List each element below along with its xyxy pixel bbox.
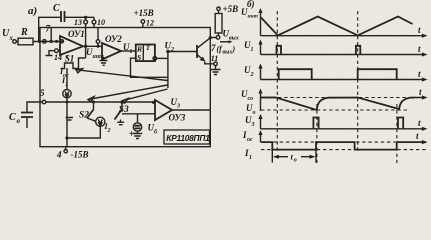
emitter wire to pin 11 — [205, 61, 214, 64]
trace U_2 square wave — [279, 69, 397, 79]
dashed gridline x=277 — [276, 11, 278, 151]
wire OU2 to flip-flop — [121, 50, 136, 52]
wire S1 down — [66, 68, 68, 90]
OU2 ground — [100, 57, 108, 65]
+15V supply pin 12 — [134, 8, 155, 28]
op-amp OU3 — [155, 100, 186, 123]
wire I1 down to bottom — [66, 98, 68, 138]
wire FF S feedback — [131, 58, 168, 77]
wire I2 to bottom rail — [67, 126, 100, 146]
t_o measure — [272, 148, 316, 163]
pin 10 — [92, 17, 105, 27]
node U2 — [166, 50, 169, 53]
flip-flop RS T — [136, 45, 157, 63]
trace U_co axes — [241, 87, 428, 111]
ground stub left of S2 — [66, 118, 74, 121]
node junction — [50, 40, 53, 43]
U3 label — [171, 97, 181, 110]
+5V pull-up resistor — [215, 4, 238, 36]
node after R — [38, 40, 41, 43]
pin 7 fvyh terminal — [216, 36, 220, 40]
wire — [97, 43, 99, 46]
OU1 output node — [84, 45, 87, 48]
annotation arrow to S1 — [76, 69, 168, 81]
pin 5 — [40, 88, 46, 104]
trace I_oc square wave — [261, 142, 424, 150]
wire R to OU1 input — [33, 41, 63, 43]
annotation arrow to S2 — [88, 85, 168, 102]
trace U_3 axes — [245, 114, 428, 131]
pin 4 and -15V — [56, 147, 89, 160]
trace U_int triangle wave — [261, 17, 413, 36]
U2 label — [165, 41, 175, 54]
Uint label — [86, 47, 104, 60]
pin 14 — [46, 49, 63, 62]
U1 label — [123, 42, 133, 55]
I_1 dashed level — [261, 149, 428, 151]
dashed gridline x=397 — [396, 104, 398, 163]
wire edge node to pin7 terminal — [210, 37, 216, 39]
switch S2 — [79, 100, 96, 121]
trace U_1 pulses — [277, 46, 361, 55]
node at OU3 input — [152, 101, 155, 104]
node junction — [66, 101, 69, 104]
pin13 wire down to OU1 output — [85, 28, 87, 59]
I_1 label — [244, 148, 252, 161]
trace U_3 pulses — [313, 118, 403, 129]
IC box — [40, 28, 210, 147]
wire OU3 output to right edge — [172, 109, 210, 111]
pin 7 — [43, 24, 51, 44]
wire pin5 to OU3 input — [46, 101, 155, 103]
input Ux — [2, 28, 16, 43]
wire cap left to input node — [39, 17, 61, 41]
node junction — [97, 45, 100, 48]
ground under pin 11 — [211, 66, 221, 75]
node at pin13 — [84, 16, 87, 19]
capacitor Co — [9, 102, 43, 128]
wire OU1 to OU2 — [83, 45, 102, 47]
node on IC edge — [209, 36, 212, 39]
voltage source Ub — [129, 123, 158, 141]
trace I_oc axes — [242, 130, 428, 144]
op-amp OU2 — [102, 34, 122, 60]
trace U_2 axes — [244, 64, 428, 82]
current source I1 label Ioc — [59, 67, 69, 79]
U_o dashed level — [246, 103, 410, 116]
current source I2 — [96, 117, 111, 134]
capacitor C — [61, 11, 65, 22]
chip label KR1108PP1 — [164, 130, 210, 144]
trace U_int axes — [241, 7, 428, 38]
ground under S3 — [117, 120, 124, 125]
Uvyh label — [220, 29, 239, 44]
pin10 wire down — [97, 28, 99, 40]
switch S1 — [61, 54, 86, 69]
wire U2 to transistor base — [168, 51, 197, 53]
pin 7 f_vyh label — [211, 43, 236, 56]
trace U_1 axes — [244, 40, 428, 57]
pin 13 — [74, 17, 88, 27]
op-amp OU1 — [60, 29, 85, 55]
resistor R — [16, 27, 33, 45]
pin 11 terminal — [214, 62, 218, 66]
scan noise — [0, 0, 1, 1]
node junction — [55, 40, 58, 43]
wire FF output to U2 node — [157, 57, 168, 59]
trace U_co sawtooth — [261, 98, 415, 111]
current source I1 — [63, 90, 71, 98]
node junction — [65, 136, 68, 139]
dashed gridline x=358 — [357, 11, 359, 151]
node at OU1 input — [60, 40, 63, 43]
pin 10 inner terminal — [96, 40, 100, 44]
wire cap right to pin13 node — [65, 16, 95, 18]
wire U2 node down — [167, 52, 169, 89]
wire Ub to OU3 input — [122, 114, 155, 123]
dashed gridline x=317 — [316, 104, 318, 163]
annotation arrow to S3 — [122, 89, 168, 103]
transistor Q1 — [197, 38, 210, 62]
wire from top edge to input node — [50, 28, 52, 42]
switch S3 — [115, 101, 129, 120]
